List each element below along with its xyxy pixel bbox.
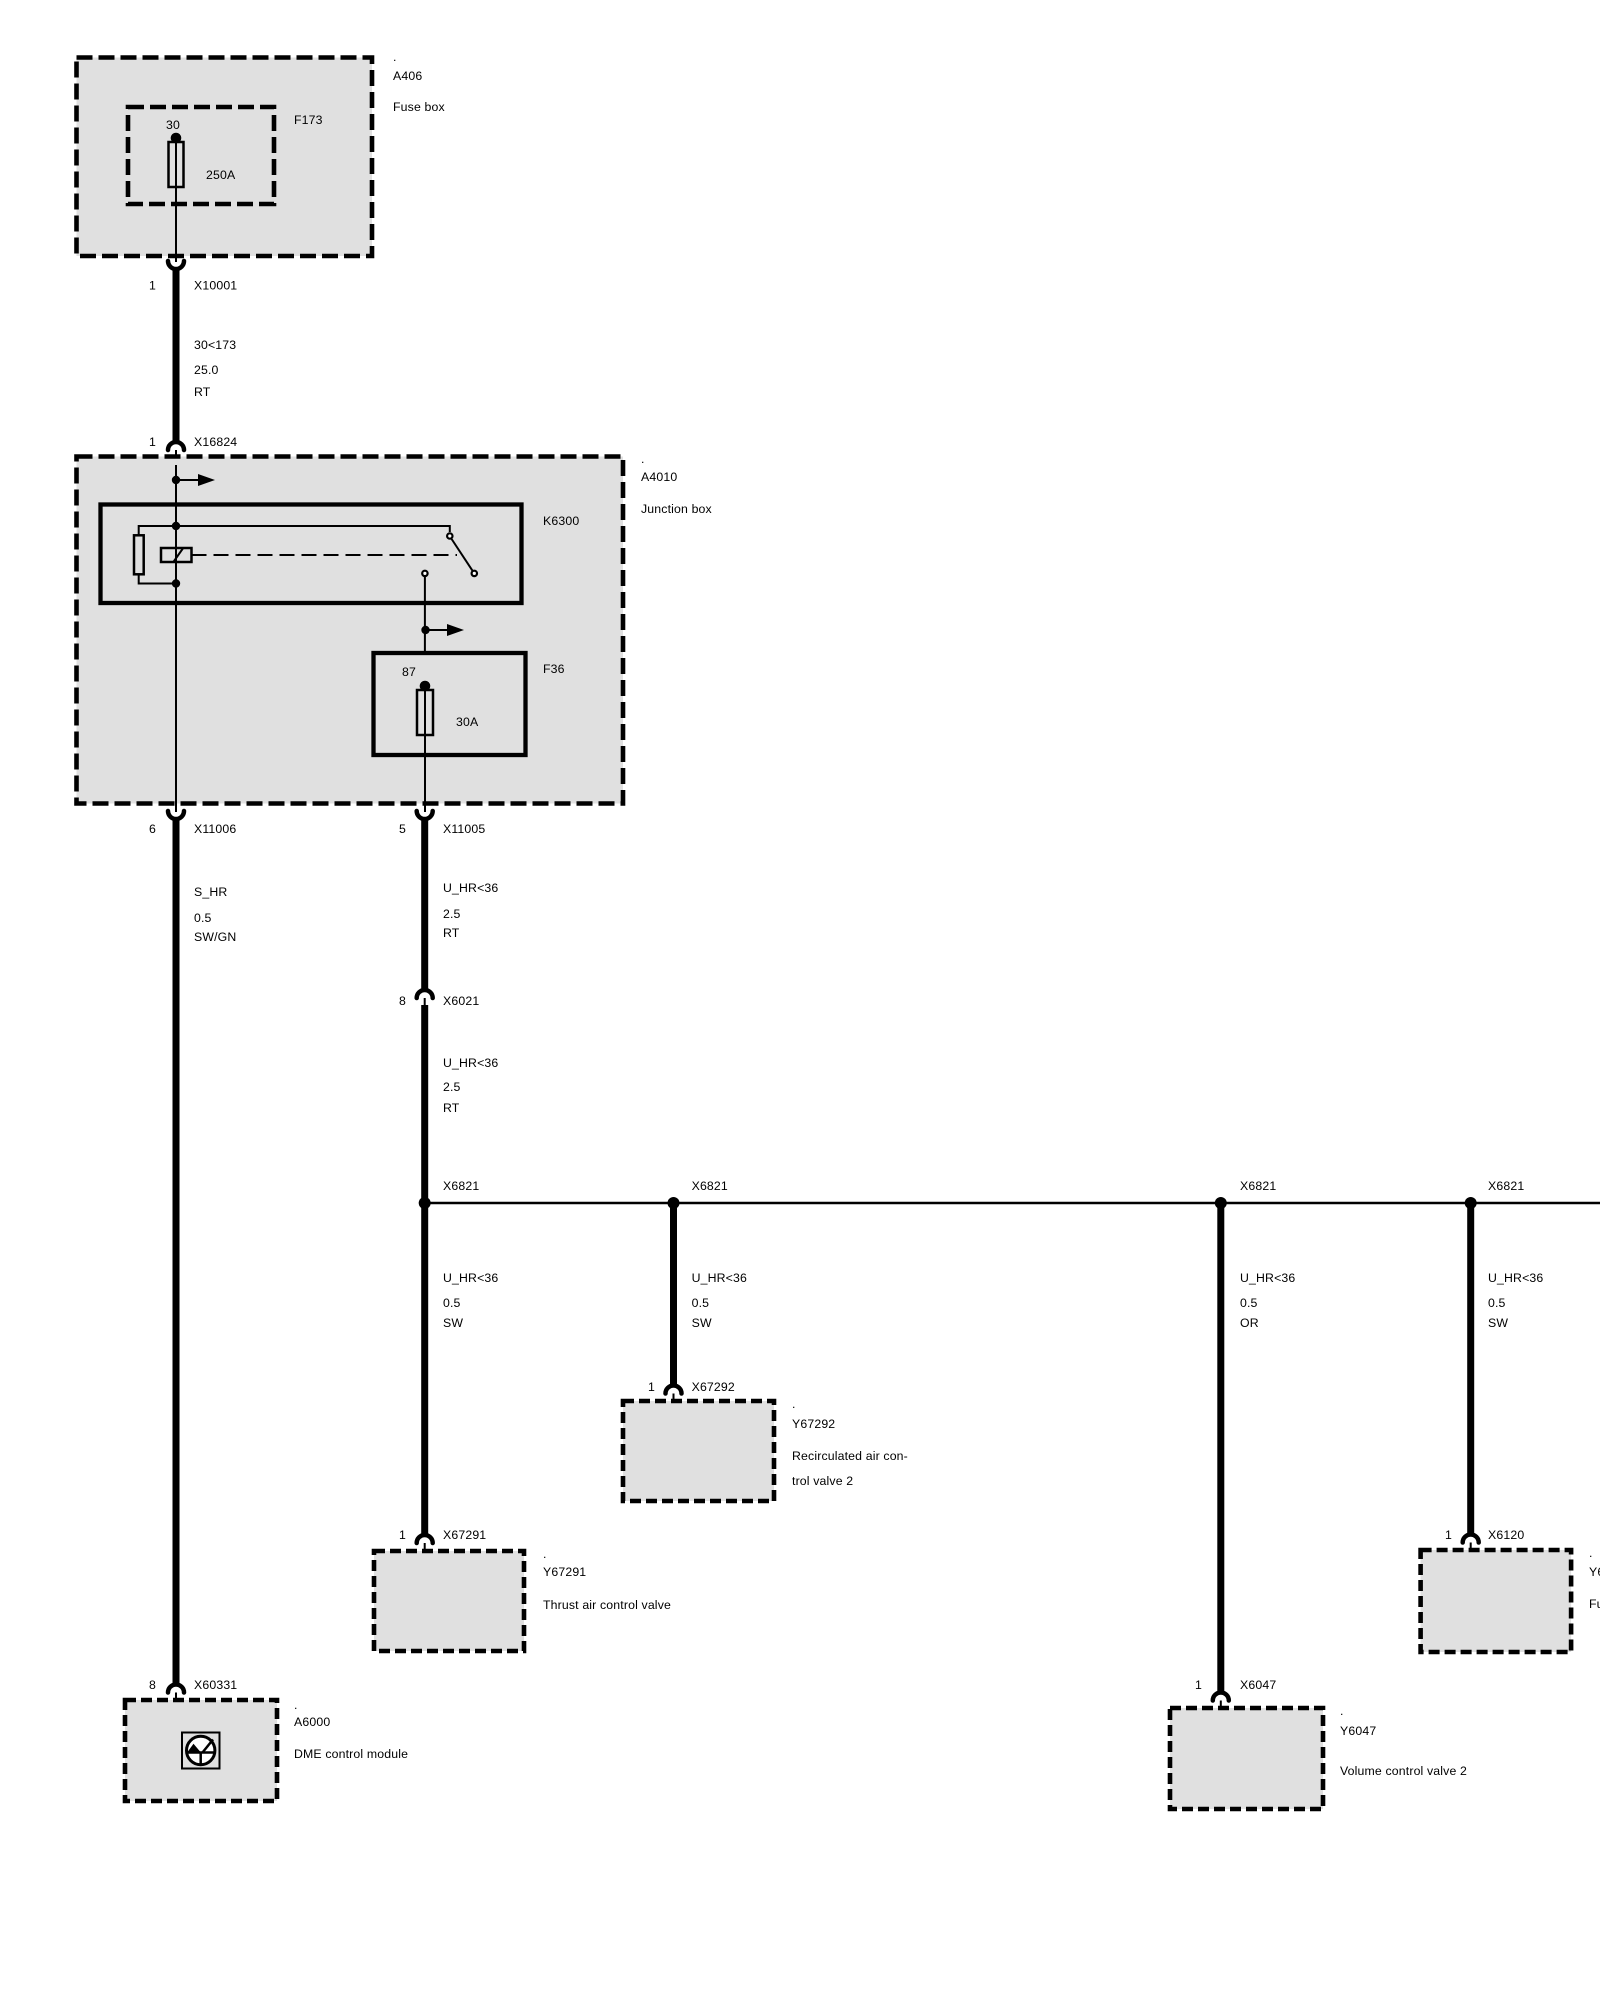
svg-text:OR: OR [1240, 1316, 1259, 1330]
connector X67291 [399, 1528, 486, 1554]
svg-text:Fuse box: Fuse box [393, 100, 445, 114]
connector X16824 [149, 435, 237, 465]
node X6821 dot 3 [1215, 1179, 1277, 1209]
svg-text:K6300: K6300 [543, 514, 579, 528]
connector X60331 [149, 1678, 237, 1703]
branch wire to X6047 (thick) [1217, 1203, 1224, 1695]
connector X11005 [399, 811, 485, 836]
svg-text:Y6120: Y6120 [1589, 1565, 1600, 1579]
svg-text:F36: F36 [543, 662, 565, 676]
relay contact wire (86->87) [176, 526, 450, 532]
svg-text:8: 8 [149, 1678, 156, 1692]
label A6000 [294, 1698, 408, 1761]
svg-text:X6120: X6120 [1488, 1528, 1524, 1542]
svg-text:X10001: X10001 [194, 279, 237, 293]
svg-text:X67292: X67292 [692, 1380, 735, 1394]
svg-text:.: . [1589, 1546, 1593, 1560]
svg-text:U_HR<36: U_HR<36 [1240, 1271, 1295, 1285]
relay K6300 box [101, 505, 522, 604]
wire label U_HR<36 2.5 RT [443, 881, 498, 940]
fuse box F36 [374, 653, 526, 755]
svg-text:RT: RT [194, 385, 211, 399]
component Y67291 box [374, 1551, 524, 1651]
wire 30<173 (thick) [173, 267, 180, 442]
wire U_HR<36 (thick) X11005 to X6021 [421, 817, 428, 992]
svg-text:RT: RT [443, 926, 460, 940]
label Y6047 [1340, 1704, 1467, 1778]
wire from relay output down [424, 576, 426, 653]
svg-text:X6821: X6821 [443, 1179, 479, 1193]
label Y6120 [1589, 1546, 1600, 1611]
svg-text:SW: SW [443, 1316, 463, 1330]
svg-text:X6021: X6021 [443, 994, 479, 1008]
junction dot bottom [172, 579, 180, 587]
wire label U_HR<36 0.5 SW [1488, 1271, 1543, 1330]
svg-text:Y67291: Y67291 [543, 1565, 586, 1579]
fuse box A406 outer dashed box [77, 58, 373, 257]
svg-text:0.5: 0.5 [443, 1296, 461, 1310]
svg-text:trol valve 2: trol valve 2 [792, 1474, 853, 1488]
wire label S_HR 0.5 SW/GN [194, 885, 236, 944]
DME control module icon [182, 1733, 220, 1769]
svg-text:25.0: 25.0 [194, 363, 219, 377]
node X6821 dot 2 [668, 1179, 728, 1209]
component Y67292 box [623, 1401, 774, 1501]
svg-text:2.5: 2.5 [443, 907, 461, 921]
svg-text:0.5: 0.5 [194, 911, 212, 925]
svg-text:S_HR: S_HR [194, 885, 227, 899]
wire S_HR (thick, left column) [173, 817, 180, 1687]
svg-text:87: 87 [402, 665, 416, 679]
junction node with arrow (top) [172, 474, 215, 486]
connector X11006 [149, 811, 236, 836]
branch wire to X67292 (thick) [670, 1203, 677, 1388]
svg-text:X67291: X67291 [443, 1528, 486, 1542]
svg-text:X11005: X11005 [443, 822, 485, 836]
svg-text:1: 1 [1195, 1678, 1202, 1692]
svg-text:0.5: 0.5 [1488, 1296, 1506, 1310]
svg-text:F173: F173 [294, 113, 323, 127]
svg-text:5: 5 [399, 822, 406, 836]
node X6821 bus line [425, 1202, 1600, 1204]
junction node with arrow (to F36) [421, 624, 464, 636]
svg-text:X6821: X6821 [692, 1179, 728, 1193]
svg-text:A406: A406 [393, 69, 422, 83]
svg-text:RT: RT [443, 1101, 460, 1115]
svg-text:U_HR<36: U_HR<36 [443, 881, 498, 895]
svg-text:2.5: 2.5 [443, 1080, 461, 1094]
fuse F36 symbol [417, 681, 433, 812]
svg-text:SW: SW [1488, 1316, 1508, 1330]
svg-text:Volume control valve 2: Volume control valve 2 [1340, 1764, 1467, 1778]
connector X6047 [1195, 1678, 1276, 1711]
svg-text:.: . [792, 1397, 796, 1411]
svg-text:30<173: 30<173 [194, 338, 236, 352]
relay blade [452, 539, 473, 571]
svg-text:250A: 250A [206, 168, 236, 182]
svg-text:X11006: X11006 [194, 822, 236, 836]
relay blade end circle [472, 571, 477, 576]
svg-text:1: 1 [399, 1528, 406, 1542]
wire label U_HR<36 0.5 SW [692, 1271, 747, 1330]
node X6821 dot 1 [419, 1179, 480, 1209]
label Y67291 [543, 1547, 671, 1612]
svg-text:0.5: 0.5 [692, 1296, 710, 1310]
svg-text:A4010: A4010 [641, 470, 677, 484]
wire label U_HR<36 0.5 SW [443, 1271, 498, 1330]
wire label 30<173 25.0 RT [194, 338, 236, 399]
branch wire to X6120 (thick) [1467, 1203, 1474, 1537]
svg-text:X6821: X6821 [1488, 1179, 1524, 1193]
connector X10001 [149, 261, 237, 293]
svg-text:Y6047: Y6047 [1340, 1724, 1376, 1738]
svg-text:6: 6 [149, 822, 156, 836]
junction box A4010 dashed box [77, 457, 624, 804]
relay contact circle A [447, 533, 452, 538]
connector X6120 [1445, 1528, 1524, 1553]
svg-text:X16824: X16824 [194, 435, 237, 449]
wire label U_HR<36 2.5 RT [443, 1056, 498, 1115]
relay coil symbol [161, 548, 192, 562]
svg-text:Fuel tank vent valve: Fuel tank vent valve [1589, 1597, 1600, 1611]
component A6000 box (DME) [125, 1700, 277, 1801]
svg-text:X6047: X6047 [1240, 1678, 1276, 1692]
svg-text:X6821: X6821 [1240, 1179, 1276, 1193]
svg-text:1: 1 [1445, 1528, 1452, 1542]
wire into junction box [175, 465, 177, 504]
wire inside junction box left column [175, 603, 177, 812]
relay coil resistor [134, 526, 176, 584]
svg-text:U_HR<36: U_HR<36 [443, 1271, 498, 1285]
relay internal: main wire through [175, 505, 177, 604]
svg-text:.: . [393, 50, 397, 64]
svg-text:.: . [294, 1698, 298, 1712]
component Y6047 box [1170, 1708, 1323, 1809]
label A406 [393, 50, 445, 114]
svg-text:1: 1 [149, 435, 156, 449]
fuse holder F173 inner dashed box [128, 107, 274, 204]
connector X67292 [648, 1380, 735, 1404]
svg-text:A6000: A6000 [294, 1715, 330, 1729]
svg-text:U_HR<36: U_HR<36 [443, 1056, 498, 1070]
svg-text:U_HR<36: U_HR<36 [1488, 1271, 1543, 1285]
relay actuation dashed line [192, 554, 458, 556]
svg-text:X60331: X60331 [194, 1678, 237, 1692]
svg-text:.: . [543, 1547, 547, 1561]
svg-text:.: . [1340, 1704, 1344, 1718]
relay output circle (87) [422, 571, 427, 576]
svg-text:Y67292: Y67292 [792, 1417, 835, 1431]
component Y6120 box [1421, 1550, 1572, 1652]
svg-text:0.5: 0.5 [1240, 1296, 1258, 1310]
svg-text:Thrust air control valve: Thrust air control valve [543, 1598, 671, 1612]
svg-text:1: 1 [648, 1380, 655, 1394]
svg-text:U_HR<36: U_HR<36 [692, 1271, 747, 1285]
svg-text:SW: SW [692, 1316, 712, 1330]
svg-text:1: 1 [149, 279, 156, 293]
branch wire to X67291 (thick) [421, 1203, 428, 1537]
svg-text:Recirculated air con-: Recirculated air con- [792, 1449, 908, 1463]
junction dot top [172, 522, 180, 530]
label Y67292 [792, 1397, 908, 1488]
node X6821 dot 4 [1465, 1179, 1525, 1209]
label A4010 [641, 452, 713, 516]
svg-text:30A: 30A [456, 715, 479, 729]
wire U_HR<36 (thick) X6021 to X6821 [421, 1005, 428, 1203]
svg-text:SW/GN: SW/GN [194, 930, 236, 944]
wire label U_HR<36 0.5 OR [1240, 1271, 1295, 1330]
svg-text:30: 30 [166, 118, 180, 132]
svg-text:8: 8 [399, 994, 406, 1008]
fuse F173 symbol [169, 133, 184, 262]
svg-text:Junction box: Junction box [641, 502, 713, 516]
connector X6021 [399, 990, 479, 1009]
svg-text:DME control module: DME control module [294, 1747, 408, 1761]
svg-text:.: . [641, 452, 645, 466]
